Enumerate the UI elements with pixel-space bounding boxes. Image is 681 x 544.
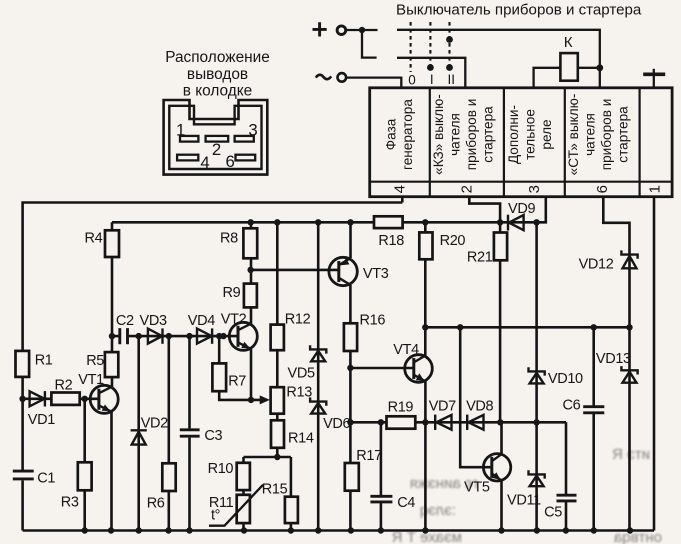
terminal box column separators bbox=[430, 88, 640, 197]
svg-text:C6: C6 bbox=[563, 398, 581, 414]
capacitor C4 bbox=[370, 496, 392, 503]
wire: C4 branch bbox=[380, 422, 383, 530]
relay K coil box bbox=[560, 53, 577, 81]
wire: relay left lead to box bbox=[534, 68, 561, 88]
svg-text:К: К bbox=[564, 34, 573, 51]
svg-text:VD5: VD5 bbox=[288, 365, 315, 381]
resistor R12 bbox=[271, 325, 284, 351]
zener VD12 bbox=[621, 250, 637, 268]
svg-text:1: 1 bbox=[647, 185, 664, 193]
svg-text:6: 6 bbox=[226, 152, 235, 171]
resistor R4 bbox=[105, 230, 119, 257]
ground symbol top right bbox=[643, 69, 665, 88]
svg-text:R18: R18 bbox=[378, 233, 404, 249]
node: C2 row junctions bbox=[109, 333, 115, 339]
zener VD5 bbox=[310, 345, 326, 361]
wire: top feed line and left edge down to bottom rail bbox=[23, 203, 403, 531]
wire: VD2 branch bbox=[137, 336, 140, 530]
diode VD7 bbox=[435, 415, 451, 430]
capacitor C3 bbox=[180, 429, 200, 438]
column label: «СТ» выключателя приборов и стартера bbox=[566, 94, 631, 176]
svg-text:R12: R12 bbox=[285, 311, 311, 327]
wire: plus to switch contact bbox=[346, 29, 378, 31]
svg-text:итэ R: итэ R bbox=[612, 446, 650, 463]
resistor R19 bbox=[387, 416, 416, 428]
svg-text:R4: R4 bbox=[85, 231, 103, 247]
resistor R16 bbox=[344, 323, 357, 351]
svg-text:R1: R1 bbox=[35, 353, 53, 369]
wire: VD10 VD11 column bbox=[535, 222, 538, 530]
svg-text:I: I bbox=[430, 72, 434, 87]
svg-text:в колодке: в колодке bbox=[183, 83, 252, 100]
switch position dashed line II bbox=[448, 22, 450, 66]
svg-text:«КЗ» выклю-: «КЗ» выклю- bbox=[431, 94, 446, 175]
wire: C3 branch bbox=[188, 336, 191, 530]
wire: R4-R5 column with C2 tap bbox=[111, 222, 114, 387]
svg-text:R15: R15 bbox=[262, 482, 288, 498]
svg-text:VT2: VT2 bbox=[221, 312, 247, 328]
wire: VD13 column to ground rail bbox=[628, 327, 631, 530]
svg-text:II: II bbox=[447, 72, 455, 87]
resistor R3 bbox=[78, 462, 92, 490]
svg-text:Выключатель приборов и стартер: Выключатель приборов и стартера bbox=[396, 1, 642, 18]
zener VD10 bbox=[529, 367, 545, 383]
column label: «КЗ» выключателя приборов и стартера bbox=[431, 94, 496, 175]
transistor VT1 bbox=[90, 385, 118, 413]
svg-text:0: 0 bbox=[408, 73, 416, 88]
zener VD6 bbox=[310, 397, 326, 413]
wire: pin2 jog to rail bbox=[469, 197, 500, 223]
svg-text:мэахе Т R: мэахе Т R bbox=[392, 529, 462, 544]
svg-text:3: 3 bbox=[248, 121, 257, 140]
resistor R5 bbox=[105, 352, 118, 377]
svg-text:приборов и: приборов и bbox=[599, 99, 614, 171]
diode VD1 bbox=[30, 391, 45, 406]
thermistor R11 t-line bbox=[209, 485, 263, 526]
svg-text::элэq: :элэq bbox=[420, 502, 456, 519]
connector pin slot 4 bbox=[177, 155, 198, 161]
svg-text:VT3: VT3 bbox=[363, 266, 389, 282]
node: contact II lower bbox=[446, 64, 453, 71]
transistor VT5 bbox=[483, 454, 510, 481]
ghost bleed-through text bbox=[392, 446, 662, 544]
svg-text:Дополни-: Дополни- bbox=[506, 105, 521, 164]
node: contact I lower bbox=[427, 64, 434, 71]
svg-text:VT1: VT1 bbox=[78, 372, 104, 388]
svg-text:VD12: VD12 bbox=[579, 256, 614, 272]
resistor R21 bbox=[494, 233, 507, 261]
wire: R12 R13 R14 column bbox=[276, 222, 279, 420]
resistor R9 bbox=[244, 284, 257, 308]
svg-text:чателя: чателя bbox=[583, 113, 598, 156]
connector pin slot 2 bbox=[206, 136, 229, 142]
resistor R17 bbox=[345, 463, 359, 491]
node: relay to upper bar bbox=[596, 64, 603, 71]
wire: C6 branch bbox=[592, 327, 595, 530]
node: rail2 junctions bbox=[248, 219, 254, 225]
wire: bottom ground rail bbox=[23, 529, 654, 532]
svg-text:стартера: стартера bbox=[616, 106, 631, 163]
wire: VT2 emitter drop bbox=[250, 349, 253, 400]
wire: R21 column to node X bbox=[499, 222, 502, 422]
svg-text:VD7: VD7 bbox=[429, 399, 456, 415]
node: plus branch bbox=[359, 27, 365, 33]
wire: pin3 jog to rail bbox=[537, 197, 546, 223]
diode VD8 bbox=[467, 415, 483, 430]
diode VD2 bbox=[131, 430, 147, 444]
wire: VT3 collector R16 R17 column bbox=[349, 285, 352, 531]
svg-text:VD1: VD1 bbox=[28, 412, 55, 428]
svg-text:реле: реле bbox=[539, 119, 554, 149]
svg-text:R5: R5 bbox=[86, 353, 104, 369]
capacitor C1 bbox=[13, 470, 34, 481]
svg-text:R2: R2 bbox=[55, 378, 73, 394]
node: VT2 emitter junction bbox=[248, 397, 254, 403]
svg-text:C2: C2 bbox=[116, 313, 134, 329]
svg-text:3: 3 bbox=[526, 185, 543, 193]
resistor R6 bbox=[162, 463, 175, 491]
svg-text:R10: R10 bbox=[208, 461, 234, 477]
svg-text:4: 4 bbox=[200, 153, 209, 172]
svg-text:Фаза: Фаза bbox=[384, 118, 399, 150]
wire: mid distribution line y327 bbox=[425, 326, 629, 329]
generator phase terminal ~ bbox=[316, 73, 346, 82]
transistor VT2 bbox=[229, 322, 257, 350]
resistor R14 bbox=[271, 420, 284, 448]
trimmer R13 wiper arrow bbox=[260, 395, 270, 404]
wire: VD5 VD6 column bbox=[317, 222, 320, 530]
plus terminal bbox=[313, 22, 346, 36]
wire: R8 R9 junction to VT3 base bbox=[251, 270, 339, 271]
svg-text:R16: R16 bbox=[360, 312, 386, 328]
node: VD1 row junctions bbox=[19, 396, 25, 402]
node: mid line junctions bbox=[422, 324, 428, 330]
svg-text:R7: R7 bbox=[228, 374, 246, 390]
capacitor C6 bbox=[583, 406, 604, 414]
wire: switch upper bar bbox=[397, 30, 600, 88]
connector pin slot 6 bbox=[236, 155, 256, 161]
svg-text:VD9: VD9 bbox=[508, 201, 535, 217]
wire: supply rail y222 bbox=[112, 221, 537, 224]
svg-text:VD13: VD13 bbox=[596, 351, 631, 367]
connector pin slot 3 bbox=[235, 136, 254, 142]
resistor R18 bbox=[374, 216, 403, 228]
resistor R2 bbox=[51, 393, 79, 405]
switch position dashed line I bbox=[429, 22, 431, 66]
svg-text:R8: R8 bbox=[220, 230, 238, 246]
node: ground rail junctions bbox=[82, 527, 88, 533]
wire: pin1 drop right edge bbox=[653, 197, 656, 531]
svg-text:2: 2 bbox=[212, 140, 221, 159]
wire: VD7 VD8 row y422 bbox=[350, 421, 566, 424]
resistor R7 bbox=[212, 363, 226, 391]
diode VD3 bbox=[148, 328, 163, 343]
zener VD11 bbox=[529, 470, 545, 486]
title: Расположение выводов в колодке bbox=[165, 49, 270, 100]
svg-text:R19: R19 bbox=[388, 400, 414, 416]
svg-text:VD4: VD4 bbox=[188, 313, 215, 329]
svg-text:VD2: VD2 bbox=[141, 415, 168, 431]
terminal box outline bbox=[370, 88, 672, 197]
zener VD13 bbox=[621, 366, 637, 383]
resistor R20 bbox=[419, 232, 432, 259]
svg-text:VD11: VD11 bbox=[507, 493, 541, 509]
svg-text:R13: R13 bbox=[286, 385, 312, 401]
svg-text:генератора: генератора bbox=[400, 99, 415, 170]
capacitor C2 bbox=[119, 328, 129, 344]
resistor R10 bbox=[237, 463, 250, 490]
svg-text:VD8: VD8 bbox=[466, 398, 493, 414]
wire: VT3 emitter to rail bbox=[349, 222, 352, 258]
svg-text:4: 4 bbox=[392, 185, 409, 193]
svg-text:VT4: VT4 bbox=[393, 342, 419, 358]
wire: R14 bottom tee to R10 and R15 bbox=[244, 448, 291, 531]
wire: R7 branch with wiper line to R13 bbox=[219, 336, 262, 400]
node: VT4 base tap bbox=[347, 365, 353, 371]
resistor R1 bbox=[16, 351, 30, 377]
resistor R13 (trimmer) bbox=[271, 387, 284, 414]
svg-text:гє аинэжя: гє аинэжя bbox=[410, 475, 478, 492]
switch position dashed line 0 bbox=[410, 22, 412, 72]
column label: Дополнительное реле bbox=[506, 105, 554, 164]
svg-text:чателя: чателя bbox=[448, 113, 463, 156]
svg-text:VD10: VD10 bbox=[548, 371, 583, 387]
diode VD4 bbox=[197, 328, 212, 343]
node: VD7 row junctions bbox=[347, 419, 353, 425]
wire: VT2 collector to R9 R8 column bbox=[250, 222, 253, 323]
svg-text:R14: R14 bbox=[288, 430, 314, 446]
wire: pin6 jog down to VD12 branch bbox=[603, 197, 629, 328]
svg-text:тельное: тельное bbox=[523, 109, 538, 160]
node: R14 tee bbox=[274, 454, 280, 460]
svg-text:R3: R3 bbox=[61, 495, 79, 511]
svg-text:1: 1 bbox=[176, 121, 185, 140]
node: contact II upper bbox=[446, 36, 453, 43]
wire: VT4 base tap bbox=[350, 367, 413, 370]
resistor R15 bbox=[285, 497, 298, 523]
diode VD9 bbox=[508, 215, 524, 231]
resistor R11 (thermistor body) bbox=[237, 495, 250, 523]
node: R8 R9 junction bbox=[247, 267, 253, 273]
svg-text:приборов и: приборов и bbox=[464, 99, 479, 171]
svg-text:C4: C4 bbox=[397, 495, 415, 511]
svg-text:R6: R6 bbox=[147, 496, 165, 512]
wire: VT1 emitter down to rail bbox=[110, 412, 113, 531]
wire: base row VD1 R2 to VT1 bbox=[23, 397, 99, 400]
transistor VT3 bbox=[329, 257, 357, 285]
svg-text:C5: C5 bbox=[544, 505, 562, 521]
svg-text:6: 6 bbox=[594, 185, 611, 193]
wire: plus branch down to lower bar bbox=[362, 30, 377, 58]
wire: R6 branch bbox=[168, 336, 171, 530]
wire: ~ to box pin 4 column bbox=[346, 78, 401, 88]
wire: pin4 drop to top feed line bbox=[401, 197, 404, 203]
svg-text:VD3: VD3 bbox=[140, 313, 167, 329]
wire: R20 column VT4 collector emitter bbox=[424, 222, 427, 530]
wire: VT5 collector and emitter column bbox=[500, 422, 503, 530]
svg-text:онтвqа: онтвqа bbox=[613, 529, 662, 544]
svg-text:C1: C1 bbox=[37, 471, 55, 487]
svg-text:стартера: стартера bbox=[481, 106, 496, 163]
wire: VT5 base feed from mid line bbox=[460, 327, 492, 467]
switch position labels 0 I II bbox=[408, 72, 455, 87]
svg-text:VD6: VD6 bbox=[323, 416, 350, 432]
wire: relay right lead bbox=[578, 67, 600, 69]
wire: R3 branch bbox=[83, 399, 86, 531]
svg-text:Расположение: Расположение bbox=[165, 49, 270, 66]
svg-text:R21: R21 bbox=[467, 250, 493, 266]
wire: switch lower bar bbox=[397, 58, 465, 88]
svg-text:t°: t° bbox=[211, 508, 220, 524]
terminal box pin-number row separator bbox=[370, 181, 672, 183]
wire: C5 branch bbox=[565, 422, 568, 530]
capacitor C5 bbox=[557, 494, 577, 501]
resistor R8 bbox=[243, 228, 257, 258]
svg-text:R20: R20 bbox=[440, 233, 466, 249]
wire: C2 VD3 VD4 row y336 bbox=[112, 335, 237, 338]
svg-text:2: 2 bbox=[459, 185, 476, 193]
svg-text:R17: R17 bbox=[356, 448, 382, 464]
svg-text:«СТ» выклю-: «СТ» выклю- bbox=[566, 94, 581, 176]
column label: Фаза генератора bbox=[384, 99, 416, 170]
transistor VT4 bbox=[405, 355, 433, 383]
svg-text:R9: R9 bbox=[223, 285, 241, 301]
svg-text:C3: C3 bbox=[204, 428, 222, 444]
connector pin numbers bbox=[176, 121, 258, 173]
connector pin slot 1 bbox=[180, 136, 198, 142]
svg-text:выводов: выводов bbox=[187, 66, 248, 83]
connector body outline bbox=[164, 100, 268, 175]
